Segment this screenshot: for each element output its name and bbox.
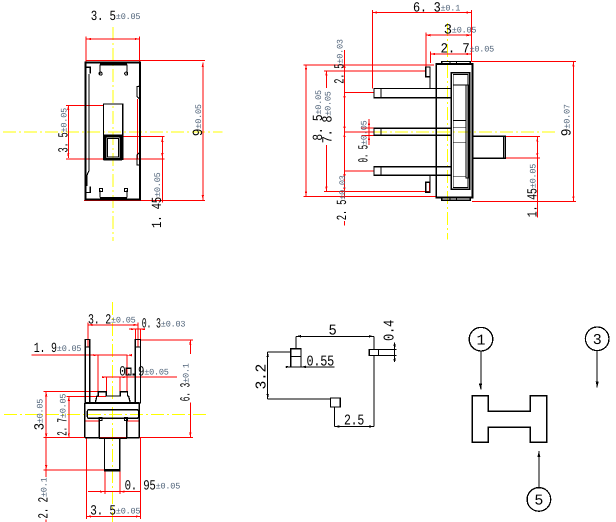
centerline vertical, top-right view xyxy=(447,23,449,240)
dim line 9 right side xyxy=(572,62,574,201)
dim line 8.5 xyxy=(305,65,307,197)
ext line pin2 center xyxy=(137,322,139,347)
ext line 8.5 bottom xyxy=(304,195,437,197)
top cover bump xyxy=(442,62,471,65)
ext line right xyxy=(138,37,140,63)
top recess edge xyxy=(100,63,127,65)
ext line 8.5 top xyxy=(304,64,435,66)
svg-text:5: 5 xyxy=(534,493,543,510)
ext line 7.8 bottom xyxy=(324,190,430,192)
left foot inner edge xyxy=(98,418,100,438)
cover plate xyxy=(451,73,469,190)
cover inner line 5 xyxy=(453,176,466,178)
mounting tab bottom xyxy=(426,182,430,192)
dim text 2.2 xyxy=(37,477,49,520)
actuator shaft xyxy=(472,136,505,158)
ext line pad B down xyxy=(373,355,375,426)
ext line shaft bottom xyxy=(506,157,540,159)
mounting tab top xyxy=(426,67,430,77)
pad B xyxy=(369,350,378,356)
ext line 2.7 xyxy=(429,52,431,64)
ext line body left xyxy=(85,438,87,519)
svg-text:0.4: 0.4 xyxy=(382,320,399,341)
pin 3 tip seam xyxy=(380,167,382,176)
ext line contact right xyxy=(126,355,128,391)
centerline horizontal, top-left view xyxy=(3,131,223,133)
ext line knob bottom xyxy=(66,158,165,160)
leader line from 5 xyxy=(538,451,540,487)
ext line 9-dim bottom xyxy=(84,199,205,201)
ext line pad B bottom xyxy=(379,354,397,356)
svg-text:3.2: 3.2 xyxy=(254,364,271,390)
ext line pad B top xyxy=(379,349,397,351)
dim line 2.7 bottom view xyxy=(68,396,70,438)
ext line 9 bottom xyxy=(472,200,576,202)
ext line contact left xyxy=(97,355,99,391)
ext line top pin center xyxy=(345,92,375,94)
ext line knob top xyxy=(121,135,165,137)
base plate recess xyxy=(87,410,138,419)
dim line 3.5 bottom xyxy=(86,515,140,517)
dim line 6.3 xyxy=(373,12,472,14)
ext line pin right edge xyxy=(139,329,141,340)
ext line left xyxy=(85,37,87,63)
body top edge (bottom view) xyxy=(85,402,139,404)
ext line slot top xyxy=(66,104,104,106)
dim line 0.9 xyxy=(103,376,177,378)
ext line contact plateau xyxy=(66,395,106,397)
dim line 1.45 xyxy=(161,136,163,202)
dim line 3 xyxy=(426,34,472,36)
pin 2 cap line xyxy=(135,346,140,348)
terminal circle 5 xyxy=(527,488,551,512)
right wall notch lower xyxy=(137,152,140,165)
bottom cover bump xyxy=(442,198,471,201)
ext line gap right xyxy=(119,377,121,391)
ext line notch xyxy=(137,99,139,159)
red line foot top left xyxy=(85,420,99,422)
dim line 5 xyxy=(296,335,374,337)
dim text 6.3 bottom view xyxy=(179,354,191,403)
pad A mid line xyxy=(291,356,301,358)
shaft tip seam xyxy=(503,136,505,158)
terminal circle 1 xyxy=(469,327,493,351)
leader line from 1 xyxy=(480,351,482,389)
ext line pin top level xyxy=(141,339,193,341)
body left edge xyxy=(84,403,86,438)
arrow bottom pin center xyxy=(343,171,345,176)
pad C xyxy=(331,398,341,407)
centerline vertical, bottom-left view xyxy=(112,302,114,522)
pin hook detail xyxy=(126,368,131,375)
left wall inner line xyxy=(87,74,89,186)
tab-to-pin link top xyxy=(429,77,431,89)
right foot bottom xyxy=(127,437,139,439)
ext line pin1 center xyxy=(87,322,89,347)
ext line 7.8 top xyxy=(324,70,426,72)
right wall notch upper xyxy=(137,86,140,99)
cover rib xyxy=(466,85,469,178)
terminal pin 3 (bottom) xyxy=(374,167,452,176)
dim line 7.8 xyxy=(325,71,327,191)
dim line 0.4 xyxy=(394,343,396,363)
ext line shaft tip level xyxy=(44,469,105,471)
tab-to-pin link bottom xyxy=(429,175,431,182)
ext line pad A center xyxy=(295,336,297,348)
ext line bump top xyxy=(44,391,98,393)
left bottom hook xyxy=(85,187,90,193)
left foot bottom xyxy=(85,437,99,439)
dim text 2.5 bottom xyxy=(338,198,349,221)
pad A xyxy=(291,349,301,367)
hook square right xyxy=(124,418,127,421)
ext line body right xyxy=(470,10,472,62)
dim line 2.5 pattern xyxy=(335,426,374,428)
cover inner line 1 xyxy=(453,84,466,86)
ext line body bottom long xyxy=(44,437,193,439)
left top hook xyxy=(85,67,90,73)
dim line 3.2 xyxy=(88,324,138,326)
terminal pin 2 (middle) xyxy=(374,128,452,135)
ext line tab bottom xyxy=(428,182,430,192)
centerline vertical, top-left view xyxy=(112,27,114,241)
ext line tab left xyxy=(425,33,427,67)
shaft tip cap xyxy=(105,470,120,471)
svg-text:1: 1 xyxy=(476,332,485,349)
leader line from 3 xyxy=(596,351,598,388)
pin 2 vertical (bottom view) xyxy=(135,340,140,404)
ext line pad C xyxy=(334,407,336,427)
pin 1 tip seam xyxy=(380,89,382,98)
dim line 1.45 shaft xyxy=(536,136,538,217)
moving contact H-shape xyxy=(472,396,546,443)
cover inner line 2 xyxy=(453,120,466,122)
slider knob inner line xyxy=(107,138,118,157)
pin 1 vertical (bottom view) xyxy=(85,340,90,404)
ext line shaft top xyxy=(506,136,540,138)
movable contact profile xyxy=(95,392,130,403)
ext line gap left xyxy=(106,377,108,391)
ext line mid pin bottom xyxy=(362,135,382,137)
ext line 9-dim top xyxy=(86,60,205,62)
body right edge xyxy=(138,403,140,438)
ext line 9 top xyxy=(471,60,576,62)
centerline horizontal, bottom-left view xyxy=(4,414,209,416)
slider slot xyxy=(104,104,123,159)
actuator shaft (bottom view) xyxy=(105,438,120,470)
pin 1 cap line xyxy=(85,346,90,348)
dim line 3 and 2.2 xyxy=(45,392,47,522)
ext line body right xyxy=(139,438,141,519)
terminal pin 1 (top) xyxy=(374,89,452,98)
centerline horizontal, top-right view xyxy=(374,131,558,133)
svg-text:2.5: 2.5 xyxy=(344,413,364,430)
red line foot top right xyxy=(127,420,139,422)
terminal circle 3 xyxy=(585,327,609,351)
dim line 3.5 top xyxy=(86,38,139,40)
dim line 0.5 xyxy=(368,119,370,145)
dim line 3.5 left xyxy=(67,105,69,158)
dim line 2.7 xyxy=(430,53,471,55)
dim line 2.5 chain xyxy=(344,50,346,226)
hook square left xyxy=(99,418,102,421)
ext line shaft right xyxy=(119,471,121,494)
dim line 3.2 pattern xyxy=(267,352,269,399)
slider knob xyxy=(105,136,121,159)
ext line mid pin top xyxy=(362,127,382,129)
ext line pad A level xyxy=(268,351,291,353)
ext line pad B center xyxy=(373,336,375,349)
svg-text:5: 5 xyxy=(329,323,337,340)
cover plate inner line xyxy=(453,74,468,187)
bottom recess edge xyxy=(100,197,127,199)
cover inner line 3 xyxy=(453,126,466,128)
switch body outline (side) xyxy=(436,64,472,198)
dim line 0.3 xyxy=(129,328,144,330)
dim line 0.95 xyxy=(88,491,140,493)
ext line pad C level xyxy=(268,398,331,400)
ext line pin left edge xyxy=(134,329,136,340)
dim line 9 right xyxy=(202,62,204,200)
cover inner line 4 xyxy=(453,141,466,143)
dim line 0.55 xyxy=(285,366,334,368)
dim line 6.3 bottom view xyxy=(189,340,191,438)
pin 2 tip seam xyxy=(380,128,382,135)
middle block bottom xyxy=(99,437,127,439)
ext line bottom pin center xyxy=(345,170,375,172)
ext line middle pin center xyxy=(345,131,374,133)
switch body outline (front) xyxy=(85,63,140,200)
svg-text:0.55: 0.55 xyxy=(307,354,335,371)
dim line 1.9 xyxy=(32,354,128,356)
ext line pin tip xyxy=(372,10,374,89)
right foot inner edge xyxy=(126,418,128,438)
ext line shaft left xyxy=(104,471,106,494)
svg-text:3: 3 xyxy=(593,332,602,349)
